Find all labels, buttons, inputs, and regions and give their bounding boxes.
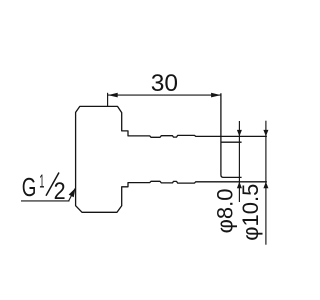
svg-text:30: 30 (151, 70, 178, 97)
leader underline (21, 200, 70, 202)
arrow 30 left (108, 93, 118, 98)
arrow d10 bottom (263, 182, 268, 189)
leader diagonal (69, 188, 76, 201)
extension line left (107, 93, 109, 107)
bore upper line (221, 141, 242, 143)
dimension line d8 (238, 121, 240, 202)
dimension line 30 (108, 94, 221, 96)
tip face and bore lower line (221, 93, 242, 177)
fitting body outline with hex flats and hose barbs (76, 106, 267, 212)
svg-text:φ10.5: φ10.5 (238, 184, 263, 241)
dimension line d10 (265, 121, 267, 245)
fraction slash (46, 173, 59, 196)
arrow d10 top (263, 130, 268, 137)
svg-text:G: G (22, 174, 37, 202)
arrow d8 top (237, 130, 242, 137)
svg-text:2: 2 (54, 178, 66, 205)
arrow leader (69, 188, 76, 197)
arrow d8 bottom (237, 182, 242, 189)
wire (76, 93, 267, 212)
svg-text:1: 1 (39, 172, 44, 192)
svg-text:φ8.0: φ8.0 (213, 188, 238, 233)
arrow 30 right (211, 93, 221, 98)
